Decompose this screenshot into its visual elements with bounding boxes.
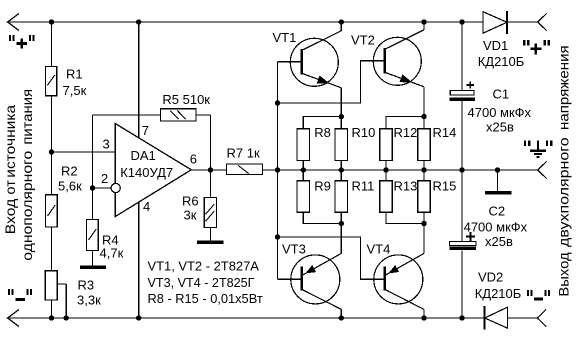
svg-text:5,6к: 5,6к bbox=[58, 178, 82, 193]
svg-text:двухполярного: двухполярного bbox=[556, 137, 571, 247]
svg-text:VT1: VT1 bbox=[273, 30, 297, 45]
svg-text:VT2: VT2 bbox=[351, 32, 375, 47]
svg-text:R7 1к: R7 1к bbox=[227, 145, 260, 160]
svg-text:VT1, VT2 - 2Т827А: VT1, VT2 - 2Т827А bbox=[148, 260, 260, 274]
svg-text:R5 510к: R5 510к bbox=[162, 92, 210, 107]
svg-text:от: от bbox=[3, 180, 18, 195]
svg-text:3,3к: 3,3к bbox=[77, 293, 101, 308]
svg-text:R12: R12 bbox=[394, 125, 418, 140]
svg-text:3к: 3к bbox=[184, 207, 197, 222]
svg-text:4700 мкФх: 4700 мкФх bbox=[464, 219, 528, 234]
svg-text:DA1: DA1 bbox=[131, 148, 156, 163]
svg-text:C2: C2 bbox=[489, 204, 506, 219]
svg-text:Выход: Выход bbox=[556, 252, 571, 296]
svg-text:х25в: х25в bbox=[485, 234, 513, 249]
svg-text:R13: R13 bbox=[394, 179, 418, 194]
svg-text:R10: R10 bbox=[352, 125, 376, 140]
svg-text:4,7к: 4,7к bbox=[100, 246, 124, 261]
svg-text:R2: R2 bbox=[61, 163, 78, 178]
svg-text:2: 2 bbox=[101, 171, 108, 186]
svg-text:напряжения: напряжения bbox=[556, 45, 571, 130]
svg-text:R11: R11 bbox=[352, 179, 375, 194]
svg-text:КД210Б: КД210Б bbox=[475, 286, 522, 301]
svg-text:VT3: VT3 bbox=[282, 241, 306, 256]
svg-text:C1: C1 bbox=[493, 87, 510, 102]
svg-text:3: 3 bbox=[103, 136, 110, 151]
svg-text:питания: питания bbox=[20, 89, 35, 145]
svg-text:4700 мкФх: 4700 мкФх bbox=[468, 105, 532, 120]
svg-text:VT3, VT4 - 2Т825Г: VT3, VT4 - 2Т825Г bbox=[148, 276, 255, 290]
svg-text:R3: R3 bbox=[78, 278, 95, 293]
svg-text:4: 4 bbox=[143, 199, 150, 214]
svg-text:R8: R8 bbox=[314, 125, 331, 140]
svg-text:R15: R15 bbox=[433, 179, 457, 194]
svg-text:VD2: VD2 bbox=[478, 269, 503, 284]
svg-text:R8 - R15 - 0,01х5Вт: R8 - R15 - 0,01х5Вт bbox=[148, 292, 263, 306]
svg-text:7,5к: 7,5к bbox=[63, 83, 87, 98]
svg-text:х25в: х25в bbox=[486, 120, 514, 135]
svg-text:R9: R9 bbox=[314, 179, 331, 194]
svg-text:КД210Б: КД210Б bbox=[478, 54, 525, 69]
svg-text:R1: R1 bbox=[66, 67, 83, 82]
svg-text:VD1: VD1 bbox=[483, 38, 508, 53]
svg-text:Вход: Вход bbox=[3, 199, 18, 235]
svg-text:7: 7 bbox=[142, 123, 149, 138]
svg-text:источника: источника bbox=[3, 104, 18, 177]
svg-text:6: 6 bbox=[190, 151, 197, 166]
svg-text:VT4: VT4 bbox=[367, 241, 391, 256]
svg-text:К140УД7: К140УД7 bbox=[120, 165, 173, 180]
svg-text:однополярного: однополярного bbox=[20, 151, 35, 261]
svg-text:R14: R14 bbox=[433, 125, 457, 140]
